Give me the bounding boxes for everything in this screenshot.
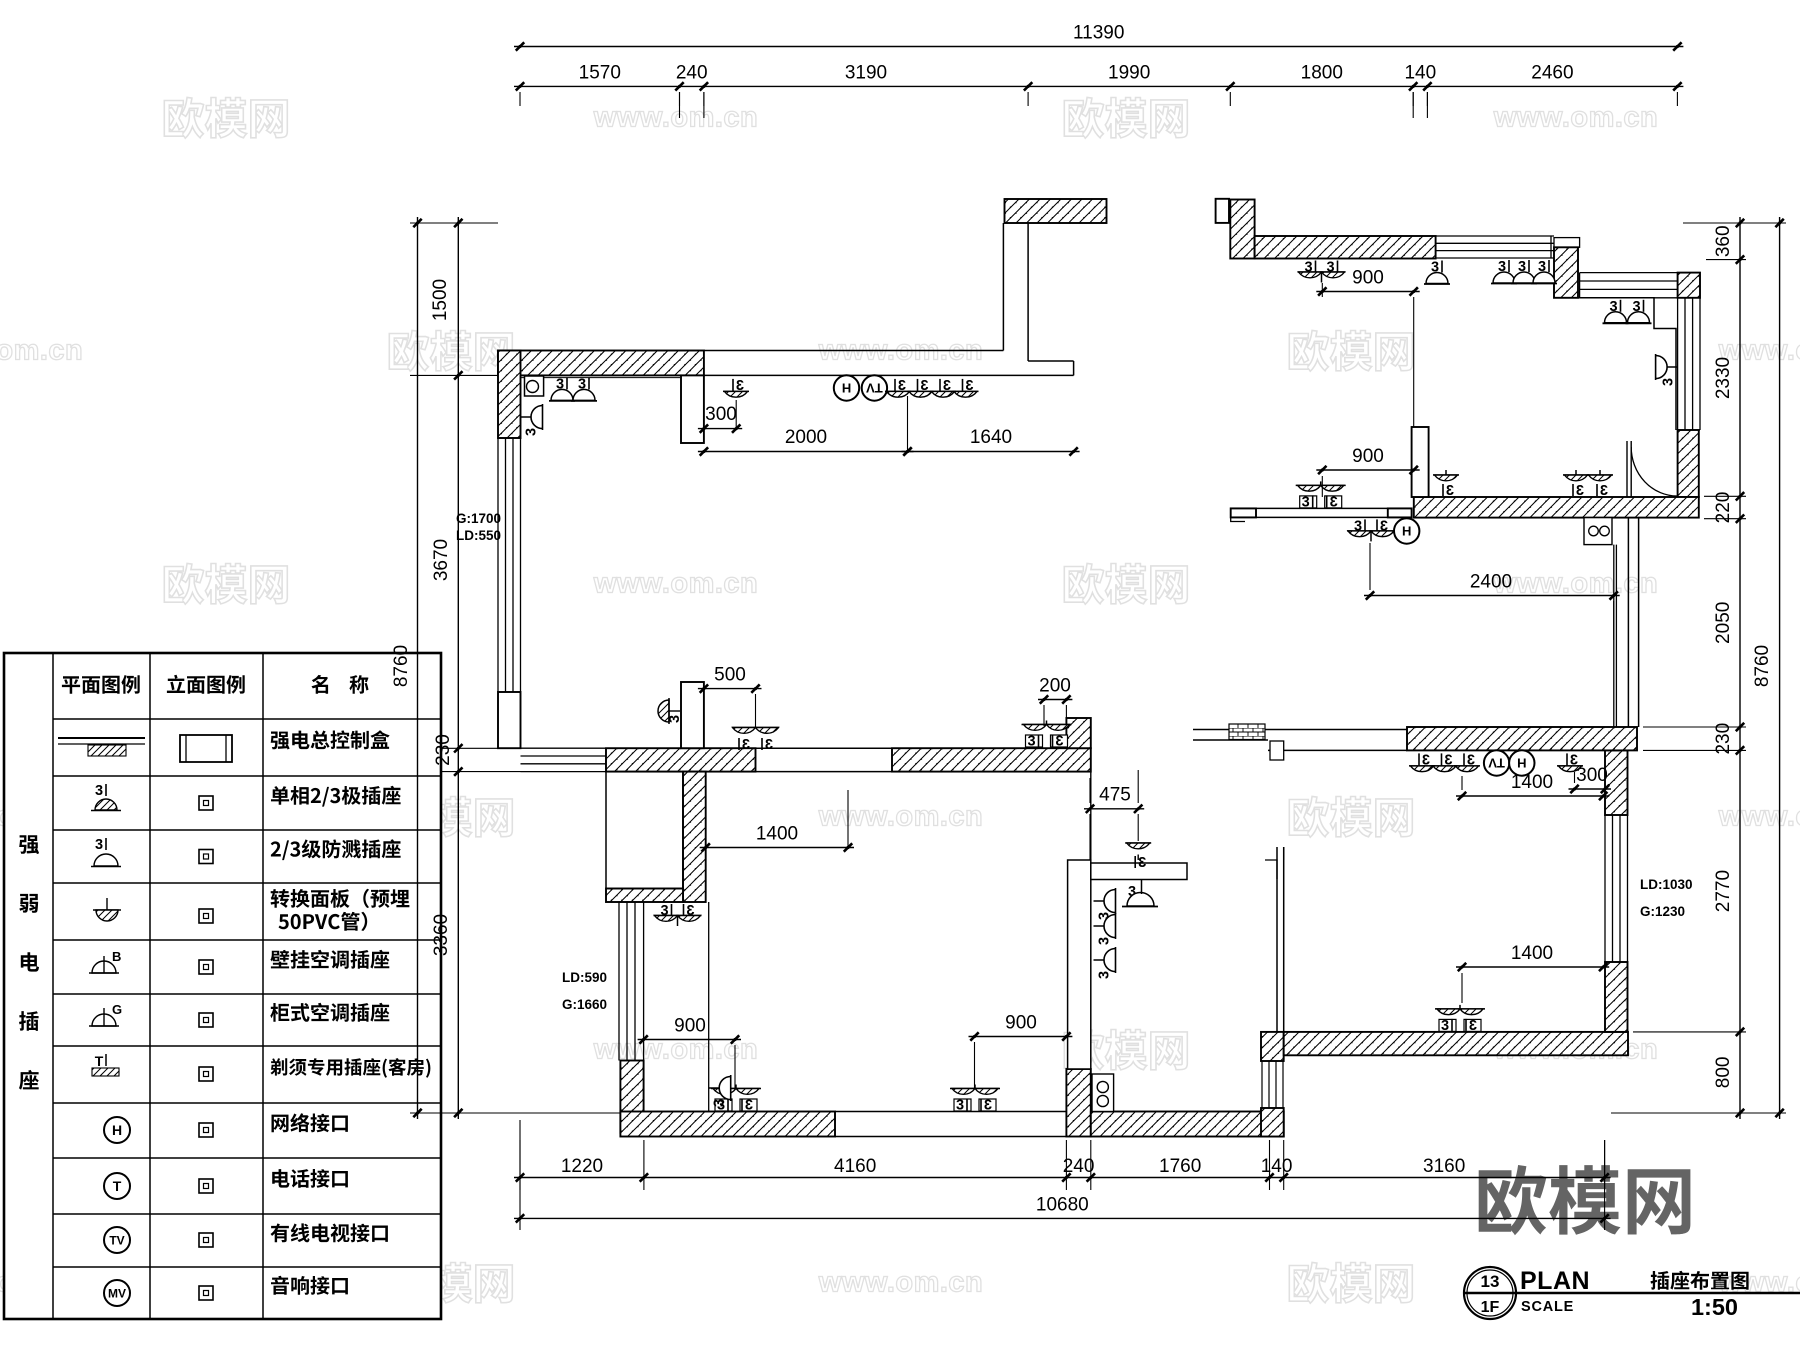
window: bath east window	[1261, 1061, 1263, 1108]
svg-text:www.om.cn: www.om.cn	[593, 568, 759, 600]
interior dims	[698, 428, 742, 430]
svg-text:1400: 1400	[1511, 943, 1553, 964]
svg-text:8760: 8760	[1752, 645, 1773, 687]
svg-text:LD:550: LD:550	[456, 528, 501, 543]
corridor south wall (thin)	[1231, 507, 1412, 509]
svg-text:2770: 2770	[1713, 870, 1734, 912]
sockets: living north	[556, 376, 567, 392]
pair below corridor wall + H	[1354, 518, 1365, 534]
svg-text:3: 3	[95, 837, 103, 853]
svg-text:1760: 1760	[1159, 1156, 1201, 1177]
svg-text:3: 3	[1097, 971, 1113, 979]
svg-text:www.om.cn: www.om.cn	[0, 335, 83, 367]
kitchen side sockets	[1094, 900, 1106, 902]
svg-text:3: 3	[1302, 494, 1310, 510]
svg-text:200: 200	[1039, 675, 1071, 696]
bedroom1 bay sockets	[1609, 299, 1620, 315]
window: bedroom1 east window	[1677, 298, 1679, 430]
svg-text:140: 140	[1404, 62, 1436, 83]
svg-text:500: 500	[714, 664, 746, 685]
svg-text:900: 900	[1352, 446, 1384, 467]
wall: bath east column	[1261, 1032, 1284, 1061]
svg-text:11390: 11390	[1073, 23, 1124, 44]
svg-text:T: T	[113, 1178, 122, 1194]
svg-text:3: 3	[765, 737, 773, 753]
living inner face line	[521, 374, 1074, 376]
svg-text:3: 3	[1441, 1018, 1449, 1034]
wall: corridor/bed3 north wall	[1407, 727, 1637, 750]
svg-text:300: 300	[1576, 765, 1608, 786]
svg-text:TV: TV	[1488, 755, 1505, 770]
legend sym row1	[58, 737, 145, 739]
dim chain top 11390	[514, 46, 1683, 48]
svg-text:13: 13	[1481, 1272, 1500, 1291]
svg-text:2400: 2400	[1470, 571, 1512, 592]
kitchen/bath C wall	[1090, 772, 1092, 860]
svg-text:3160: 3160	[1423, 1156, 1465, 1177]
svg-text:TV: TV	[109, 1233, 124, 1247]
svg-text:1570: 1570	[579, 62, 621, 83]
legend sym row5	[92, 961, 116, 973]
wall: south band bath	[1091, 1112, 1284, 1137]
dim chain bottom	[514, 1177, 1611, 1179]
legend elev row1	[180, 735, 232, 762]
TV niche walls	[1002, 223, 1004, 351]
big watermark	[1479, 1165, 1691, 1235]
wardrobe column	[1412, 427, 1429, 497]
legend table	[4, 653, 441, 1319]
svg-text:3: 3	[1661, 378, 1677, 386]
svg-text:3: 3	[1576, 483, 1584, 499]
window: hall west window	[521, 747, 607, 749]
window: bedroom1 north window	[1436, 235, 1554, 237]
svg-text:1640: 1640	[970, 427, 1012, 448]
window: bedroom3 east window	[1604, 815, 1606, 962]
svg-text:H: H	[842, 380, 851, 395]
svg-text:SCALE: SCALE	[1521, 1299, 1574, 1315]
shaft box	[681, 375, 704, 443]
legend sym row6	[92, 1014, 116, 1026]
svg-text:475: 475	[1099, 785, 1131, 806]
wall: top elevator block	[1005, 199, 1107, 223]
svg-text:900: 900	[1005, 1012, 1037, 1033]
svg-text:www.om.cn: www.om.cn	[593, 102, 759, 134]
svg-text:3: 3	[984, 1098, 992, 1114]
bedroom3 south pair	[1435, 1008, 1485, 1010]
svg-text:800: 800	[1713, 1057, 1734, 1089]
wall: bath west column	[1066, 1069, 1090, 1137]
svg-text:3: 3	[667, 715, 683, 723]
svg-text:3: 3	[1027, 734, 1035, 750]
wall: bedroom1 south wall	[1414, 497, 1699, 518]
wall: bedroom3 south wall	[1284, 1032, 1628, 1055]
window: bay window	[1580, 272, 1678, 274]
svg-text:2000: 2000	[785, 427, 827, 448]
entry pairs	[950, 1088, 1000, 1090]
svg-text:3: 3	[956, 1098, 964, 1114]
svg-text:3: 3	[1469, 1018, 1477, 1034]
bedroom1 east socket	[1666, 366, 1678, 368]
svg-text:1990: 1990	[1108, 62, 1150, 83]
svg-text:H: H	[112, 1122, 122, 1138]
svg-text:240: 240	[676, 62, 708, 83]
wall: bedroom1 north wall	[1255, 236, 1436, 259]
wall: bay pier	[1554, 238, 1580, 248]
svg-text:1800: 1800	[1301, 62, 1343, 83]
svg-text:900: 900	[1352, 267, 1384, 288]
svg-text:3670: 3670	[431, 539, 452, 581]
pair below corridor band	[732, 727, 779, 729]
dim chain left	[457, 217, 459, 1119]
hatched side socket at hall box	[658, 700, 669, 722]
svg-text:230: 230	[433, 734, 454, 766]
wall: bedroom1 entry pier	[1216, 199, 1229, 223]
legend sym row3	[95, 837, 106, 853]
H TV circles living	[834, 375, 859, 400]
wall: storage south band	[606, 889, 683, 903]
floor outlet box	[1584, 518, 1612, 545]
wall: living room north wall	[498, 351, 704, 376]
svg-text:1220: 1220	[561, 1156, 603, 1177]
svg-text:2050: 2050	[1713, 602, 1734, 644]
curtain wall + S curve	[1626, 441, 1628, 497]
svg-text:3: 3	[1055, 734, 1063, 750]
bath interior lines	[1091, 771, 1193, 773]
bedroom3 west wall	[1276, 847, 1278, 1032]
title block	[1464, 1267, 1516, 1319]
partition living/bed3	[1627, 518, 1629, 727]
svg-text:360: 360	[1713, 225, 1734, 257]
shaft box lower	[681, 682, 704, 748]
svg-text:3: 3	[1097, 937, 1113, 945]
wall: SW corner	[620, 1061, 643, 1134]
brick infill wall	[1193, 729, 1407, 731]
entry door opening	[835, 1111, 1066, 1113]
svg-text:H: H	[1517, 755, 1526, 770]
svg-text:www.om.cn: www.om.cn	[818, 1267, 984, 1299]
bath pair on band	[1022, 724, 1072, 726]
wall: south band west	[620, 1112, 835, 1137]
socket at 475	[1125, 842, 1151, 844]
socket: west wall side	[521, 416, 533, 418]
svg-text:10680: 10680	[1036, 1194, 1089, 1215]
svg-text:LD:1030: LD:1030	[1640, 877, 1693, 892]
svg-text:3: 3	[1330, 494, 1338, 510]
wall: bath west pier	[1066, 718, 1090, 748]
svg-text:3: 3	[1446, 483, 1454, 499]
svg-text:900: 900	[674, 1015, 706, 1036]
wall: bedroom1 SE pier	[1678, 430, 1699, 497]
svg-text:8760: 8760	[391, 645, 412, 687]
svg-text:230: 230	[1713, 723, 1734, 755]
svg-text:1:50: 1:50	[1691, 1294, 1738, 1320]
window: entry west window	[618, 902, 620, 1061]
svg-text:G:1700: G:1700	[456, 511, 501, 526]
legend sym row4	[93, 909, 121, 911]
legend sym row2	[95, 783, 106, 799]
stove box w/ circles	[1092, 1074, 1114, 1112]
entry east line	[708, 902, 710, 1137]
svg-text:PLAN: PLAN	[1520, 1267, 1590, 1295]
svg-text:4160: 4160	[834, 1156, 876, 1177]
wall: NE corner pier	[1678, 273, 1700, 298]
socket: mirrored bowl near 300	[733, 378, 744, 394]
entry side socket	[709, 1087, 721, 1089]
svg-text:2460: 2460	[1531, 62, 1573, 83]
dim chain right	[1739, 217, 1741, 1119]
svg-text:3: 3	[524, 428, 540, 436]
bedroom1 north sockets	[1304, 260, 1315, 276]
svg-text:3: 3	[742, 737, 750, 753]
wall: mid band (hall/storage north)	[606, 748, 756, 771]
svg-text:www.om.cn: www.om.cn	[1493, 102, 1659, 134]
svg-text:3360: 3360	[431, 914, 452, 956]
svg-text:1F: 1F	[1481, 1299, 1500, 1316]
wall: storage east wall	[683, 772, 706, 902]
wall: bedroom3 east lower pier	[1605, 962, 1628, 1032]
svg-text:LD:590: LD:590	[562, 970, 607, 985]
svg-text:TV: TV	[866, 380, 883, 395]
svg-text:1400: 1400	[1511, 772, 1553, 793]
window: west window	[497, 438, 499, 692]
socket row right of TV	[895, 378, 906, 394]
svg-text:www.om.cn: www.om.cn	[818, 801, 984, 833]
svg-text:300: 300	[705, 404, 737, 425]
svg-text:G:1230: G:1230	[1640, 904, 1685, 919]
bedroom3 north sockets	[1419, 752, 1430, 768]
svg-text:MV: MV	[108, 1286, 126, 1300]
niche top line	[704, 350, 1004, 352]
pair above corridor wall	[1296, 484, 1346, 486]
svg-text:2330: 2330	[1713, 357, 1734, 399]
wall: west wall pier	[498, 692, 521, 748]
bay window sill steps	[1554, 298, 1676, 430]
svg-text:3: 3	[712, 1099, 728, 1107]
svg-text:www.om.cn: www.om.cn	[593, 1034, 759, 1066]
legend circles	[104, 1117, 130, 1143]
svg-text:www.om.cn: www.om.cn	[1493, 568, 1659, 600]
svg-text:1500: 1500	[430, 279, 451, 321]
svg-text:3: 3	[1600, 483, 1608, 499]
svg-text:H: H	[1402, 524, 1411, 539]
svg-text:240: 240	[1063, 1156, 1095, 1177]
svg-text:B: B	[112, 949, 121, 964]
svg-text:3190: 3190	[845, 62, 887, 83]
control box w/ circle	[525, 376, 544, 396]
svg-text:3: 3	[95, 783, 103, 799]
svg-text:www.om.cn: www.om.cn	[1718, 801, 1800, 833]
storage pair	[660, 903, 671, 919]
svg-text:140: 140	[1261, 1156, 1293, 1177]
svg-text:3: 3	[745, 1098, 753, 1114]
svg-text:T: T	[95, 1053, 104, 1069]
svg-text:1400: 1400	[756, 823, 798, 844]
svg-text:G: G	[112, 1002, 122, 1017]
bedroom1 floor sockets	[1433, 474, 1459, 476]
wall: bedroom3 east upper pier	[1605, 750, 1628, 815]
svg-text:G:1660: G:1660	[562, 997, 607, 1012]
svg-text:3: 3	[1138, 855, 1146, 871]
